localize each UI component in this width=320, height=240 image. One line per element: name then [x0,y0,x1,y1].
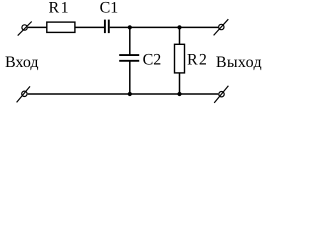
wire top: input terminal to R1 [28,26,47,28]
node: junction C2 top [128,25,132,29]
resistor R2 [175,44,185,73]
svg-text:R2: R2 [187,52,208,69]
svg-text:C2: C2 [143,52,162,69]
node: junction R2 bottom [177,92,181,96]
wire top: C1 to output terminal [110,26,218,28]
node: junction R2 top [177,25,181,29]
wire top: R1 to C1 [75,26,104,28]
svg-text:R1: R1 [49,0,70,17]
wire: C2 branch upper segment [129,27,131,55]
wire: R2 branch lower segment [179,73,181,94]
output terminal bottom [214,86,228,103]
svg-text:C1: C1 [100,0,119,17]
capacitor C2 [119,55,139,61]
resistor R1 [47,22,75,32]
wire: C2 branch lower segment [129,61,131,94]
node: junction C2 bottom [128,92,132,96]
svg-text:Выход: Выход [216,54,262,71]
svg-text:Вход: Вход [5,54,39,71]
output terminal top [214,19,229,35]
input terminal top [18,22,32,36]
input terminal bottom [17,86,30,102]
capacitor C1 [105,20,109,33]
wire: R2 branch upper segment [179,27,181,44]
wire bottom: input terminal to output terminal [28,93,219,95]
